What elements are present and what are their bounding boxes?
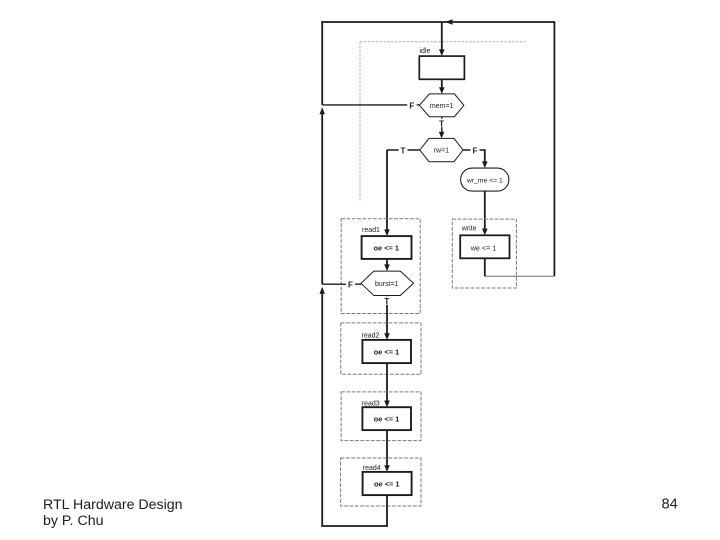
arrowhead into we box	[482, 229, 488, 236]
conditional output box wr_me <= 1	[461, 168, 509, 191]
svg-text:we <= 1: we <= 1	[470, 243, 497, 252]
wire: rw=1 F down into wr_me output	[484, 149, 486, 163]
dashed ASM block: read1	[341, 219, 420, 314]
svg-text:read1: read1	[362, 227, 380, 234]
svg-text:RTL Hardware Design: RTL Hardware Design	[43, 497, 183, 513]
wire: read1 oe box to burst decision	[386, 259, 388, 266]
wire: burst=1 false branch horizontal	[322, 283, 361, 285]
svg-text:wr_me <= 1: wr_me <= 1	[466, 177, 503, 184]
label T (mem=1 true)	[441, 117, 443, 134]
arrowhead into burst decision	[384, 264, 390, 271]
svg-text:read2: read2	[362, 333, 380, 340]
label F (mem=1 false)	[407, 101, 417, 110]
decision burst=1	[361, 271, 414, 295]
wire: read3 to read4	[386, 430, 388, 467]
state box oe <= 1 (read3)	[362, 407, 411, 430]
svg-text:burst=1: burst=1	[375, 281, 399, 288]
svg-text:oe <= 1: oe <= 1	[374, 347, 399, 356]
wire: rw=1 false branch horizontal	[463, 149, 485, 151]
state box oe <= 1 (read2)	[362, 340, 411, 363]
svg-text:idle: idle	[420, 48, 431, 55]
dashed ASM block: write	[452, 219, 516, 288]
wire: right return vertical (from write exit up to top)	[553, 22, 555, 276]
wire: burst=1 true branch down, label T	[386, 296, 388, 336]
wire: rw=1 T drop into read1	[386, 150, 388, 231]
svg-text:oe <= 1: oe <= 1	[374, 244, 399, 253]
wire: write exit horizontal	[485, 275, 555, 277]
svg-text:write: write	[461, 226, 477, 233]
arrowhead into read3 oe box	[384, 401, 390, 408]
dashed ASM block: read3	[341, 392, 421, 441]
svg-text:rw=1: rw=1	[434, 148, 449, 155]
svg-text:oe <= 1: oe <= 1	[374, 480, 399, 489]
label F (rw=1 false)	[471, 146, 480, 155]
wire: read2 to read3	[386, 363, 388, 402]
svg-text:by P. Chu: by P. Chu	[43, 513, 103, 529]
wire: entry drop into idle box	[441, 22, 443, 51]
svg-text:84: 84	[662, 497, 678, 513]
decision mem=1	[419, 94, 464, 117]
wire: we box down to write exit	[484, 258, 486, 276]
arrowhead on top feedback line (pointing left into entry node)	[445, 19, 453, 25]
svg-text:T: T	[384, 297, 389, 306]
wire: bottom return up-arrow joining burst F corner	[320, 287, 325, 294]
state box oe <= 1 (read4)	[363, 472, 412, 495]
arrowhead into rw=1 decision	[439, 132, 445, 139]
arrowhead into read2 oe box	[384, 333, 390, 340]
wire: read4 down to bottom return	[386, 495, 388, 526]
decision rw=1	[420, 138, 463, 161]
wire: bottom return horizontal	[321, 525, 388, 527]
dashed ASM block boundary: left edge of idle block	[359, 42, 361, 202]
svg-text:mem=1: mem=1	[430, 103, 454, 110]
svg-text:T: T	[401, 146, 406, 155]
wire: left return up-arrow joining mem=1 F line (from burst F)	[320, 107, 325, 114]
wire: top feedback line	[321, 21, 555, 23]
arrowhead into wr_me output	[482, 161, 488, 168]
wire: rw=1 true branch horizontal	[387, 149, 420, 151]
svg-text:oe <= 1: oe <= 1	[374, 415, 399, 424]
dashed ASM block boundary: top edge of idle block	[360, 41, 526, 43]
arrowhead into read1 oe box	[384, 229, 390, 236]
label F (burst=1 false)	[346, 280, 355, 289]
wire: idle box to mem=1 decision	[441, 79, 443, 89]
label T (rw=1 true)	[399, 146, 408, 155]
dashed ASM block: read2	[341, 323, 421, 374]
state box we <= 1	[460, 235, 509, 258]
state box oe <= 1 (read1)	[362, 236, 412, 259]
arrowhead into read4 oe box	[384, 465, 390, 472]
wire: left vertical from top down to mem=1 F line	[321, 22, 323, 105]
svg-text:F: F	[472, 146, 477, 155]
svg-text:F: F	[348, 281, 353, 290]
svg-text:T: T	[439, 119, 444, 128]
wire: wr_me to write state box	[484, 191, 486, 230]
svg-text:F: F	[409, 101, 414, 110]
arrowhead into mem=1 decision	[439, 87, 445, 94]
wire: mem=1 false branch horizontal	[322, 104, 419, 106]
arrowhead into idle box	[439, 49, 445, 56]
state box idle	[419, 56, 464, 79]
dashed ASM block: read4	[341, 458, 421, 506]
